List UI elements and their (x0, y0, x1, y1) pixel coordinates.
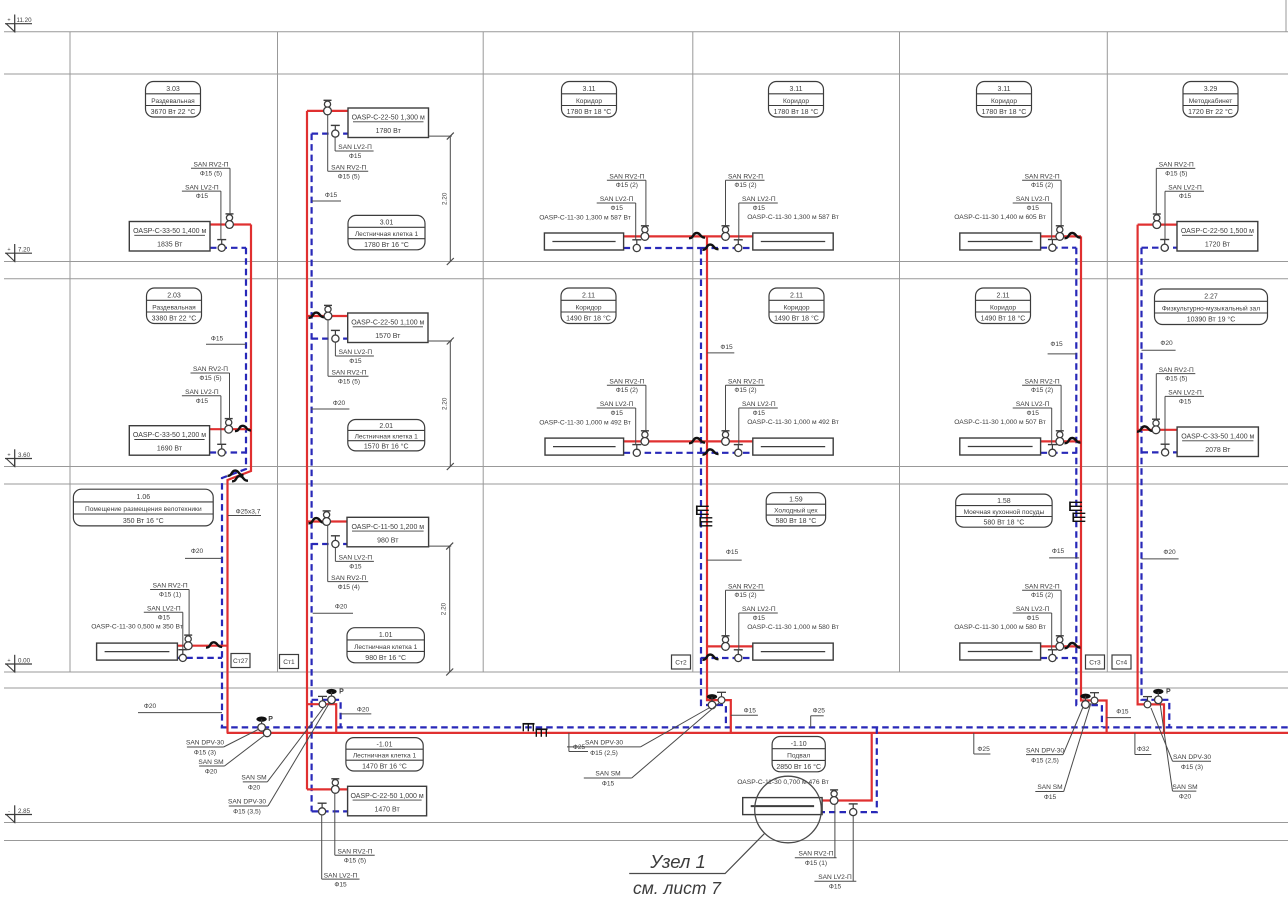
svg-text:SAN RV2-П: SAN RV2-П (728, 583, 763, 590)
svg-text:2.01: 2.01 (379, 423, 393, 430)
svg-text:Ф15 (2): Ф15 (2) (616, 387, 638, 394)
St1 DPV/SM leaders (228, 702, 330, 816)
room 1.01 (347, 628, 424, 663)
svg-text:2850 Вт 16 °С: 2850 Вт 16 °С (776, 763, 821, 771)
bay6 row2 return valve (1161, 444, 1170, 456)
svg-text:SAN RV2-П: SAN RV2-П (728, 378, 763, 385)
svg-text:Ф20: Ф20 (335, 603, 348, 610)
svg-text:SAN DPV-30: SAN DPV-30 (228, 799, 266, 806)
riser St4 supply (red) (1138, 225, 1164, 733)
elevation marker -2.85 (5, 805, 32, 822)
svg-text:ОАSР-С-11-30 1,000 м 507 Вт: ОАSР-С-11-30 1,000 м 507 Вт (954, 419, 1046, 426)
svg-text:Ст27: Ст27 (233, 658, 248, 665)
bay6 row1 SAN labels (1156, 162, 1204, 240)
St3 DPV/SM leaders (1026, 703, 1091, 801)
St1 phi20 main label (341, 706, 372, 714)
svg-text:ОАSР-С-11-30 1,400 м 605 Вт: ОАSР-С-11-30 1,400 м 605 Вт (954, 214, 1046, 221)
svg-text:1720 Вт 22 °С: 1720 Вт 22 °С (1188, 108, 1233, 116)
svg-text:Ф15: Ф15 (196, 193, 209, 200)
svg-text:2.11: 2.11 (790, 293, 803, 300)
svg-text:ОАSР-С-33-50 1,400 м: ОАSР-С-33-50 1,400 м (133, 228, 206, 235)
svg-text:Ф15 (2): Ф15 (2) (734, 387, 756, 394)
St3 phi15 label b (1049, 548, 1079, 558)
svg-text:SAN LV2-П: SAN LV2-П (600, 401, 634, 408)
riser tag St1 (280, 655, 299, 669)
bay2 row4 SAN labels (below) (322, 793, 375, 888)
bay4 row2 SAN labels (726, 378, 778, 444)
building grid vertical column lines (70, 0, 1286, 672)
St27 main valves P (256, 716, 273, 731)
bay2 row3 crossing (309, 518, 325, 523)
svg-text:1780 Вт 18 °С: 1780 Вт 18 °С (982, 108, 1027, 116)
riser St4 return (blue) (1142, 248, 1170, 728)
svg-text:Ф15: Ф15 (211, 336, 224, 343)
svg-text:Узел 1: Узел 1 (649, 851, 706, 872)
riser St1 supply (red) (306, 111, 308, 790)
svg-text:SAN RV2-П: SAN RV2-П (1025, 378, 1060, 385)
svg-text:Лестничная клетка 1: Лестничная клетка 1 (355, 231, 419, 238)
svg-text:ОАSР-С-33-50 1,200 м: ОАSР-С-33-50 1,200 м (133, 432, 206, 439)
svg-text:Ф15: Ф15 (726, 549, 739, 556)
svg-text:Ф15: Ф15 (1050, 341, 1063, 348)
return main (blue dashed) (221, 726, 1288, 728)
bay3 row1 radiator (624, 235, 707, 237)
svg-text:ОАSР-С-11-30 1,000 м 492 Вт: ОАSР-С-11-30 1,000 м 492 Вт (539, 420, 631, 427)
svg-text:11.20: 11.20 (16, 17, 32, 24)
svg-text:ОАSР-С-11-30 0,700 м 476 Вт: ОАSР-С-11-30 0,700 м 476 Вт (737, 779, 829, 786)
svg-text:Ф15 (3): Ф15 (3) (194, 749, 216, 756)
svg-text:580 Вт 18 °С: 580 Вт 18 °С (984, 519, 1025, 527)
St3 compensator marks (1070, 502, 1082, 512)
svg-text:Помещение размещения велотехни: Помещение размещения велотехники (85, 506, 202, 513)
svg-text:Коридор: Коридор (576, 98, 602, 105)
bay1 row1 return valve (217, 240, 226, 252)
svg-text:Р: Р (339, 688, 344, 695)
bay6 row1 return valve (1160, 240, 1169, 252)
svg-text:SAN RV2-П: SAN RV2-П (798, 850, 833, 857)
phi25 label left (569, 733, 588, 752)
svg-text:Холодный цех: Холодный цех (774, 507, 818, 515)
phi25 label right (974, 733, 991, 754)
svg-text:SAN LV2-П: SAN LV2-П (742, 196, 776, 203)
St3 main valves (1080, 694, 1090, 709)
svg-text:SAN DPV-30: SAN DPV-30 (186, 740, 224, 747)
svg-text:ОАSР-С-11-30 1,300 м 587 Вт: ОАSР-С-11-30 1,300 м 587 Вт (747, 214, 839, 221)
St27 phi20 main label (138, 703, 222, 712)
bay3 row1 SAN labels (597, 173, 646, 239)
svg-text:ОАSР-С-11-30 1,000 м 492 Вт: ОАSР-С-11-30 1,000 м 492 Вт (747, 419, 839, 426)
svg-text:1570 Вт 16 °С: 1570 Вт 16 °С (364, 442, 409, 450)
St3 phi15 label a (1048, 341, 1077, 354)
svg-text:SAN RV2-П: SAN RV2-П (609, 378, 644, 385)
St2 DPV/SM leaders (567, 703, 719, 787)
node detail circle (755, 776, 822, 843)
svg-text:Ст3: Ст3 (1089, 660, 1101, 667)
svg-text:Ф15: Ф15 (753, 410, 766, 417)
svg-text:Лестничная клетка 1: Лестничная клетка 1 (355, 433, 419, 440)
bay2 row2 radiator OASP-C-22-50 1,100 (307, 315, 348, 317)
St27 phi25x3.7 label (228, 508, 261, 515)
St27 phi15 label (206, 336, 246, 345)
svg-text:SAN RV2-П: SAN RV2-П (1159, 162, 1194, 169)
bay5 row2 supply valve (1056, 431, 1064, 446)
dimension 2.20 row3 (429, 543, 454, 676)
svg-text:SAN LV2-П: SAN LV2-П (1016, 401, 1050, 408)
svg-text:1490 Вт 18 °С: 1490 Вт 18 °С (981, 315, 1026, 323)
svg-text:Ф15: Ф15 (1044, 794, 1057, 801)
bay3 row1 return valve (632, 240, 641, 252)
svg-text:SAN LV2-П: SAN LV2-П (147, 606, 181, 613)
svg-text:Физкультурно-музыкальный зал: Физкультурно-музыкальный зал (1162, 304, 1260, 312)
svg-text:Ф25х3,7: Ф25х3,7 (236, 508, 261, 515)
svg-text:Ф25: Ф25 (813, 708, 826, 715)
bay3 row2 SAN labels (597, 378, 646, 444)
bay2 row4 return valve (318, 803, 327, 815)
svg-text:Ф32: Ф32 (1137, 746, 1150, 753)
basement radiator return drop (blue) (822, 727, 877, 812)
svg-text:ОАSР-С-33-50 1,400 м: ОАSР-С-33-50 1,400 м (1181, 434, 1254, 441)
bay1 row3 radiator OASP-C-11-30 0,500 (177, 645, 227, 647)
room 3.29 (1183, 82, 1238, 118)
svg-text:ОАSР-С-11-50 1,200 м: ОАSР-С-11-50 1,200 м (351, 524, 424, 531)
svg-text:Методкабинет: Методкабинет (1189, 97, 1233, 105)
svg-text:Ф15: Ф15 (1179, 193, 1192, 200)
room 3.03 (146, 82, 201, 118)
bay4 row2 supply valve (722, 431, 730, 446)
St27 phi20 label (185, 548, 222, 559)
svg-text:2.11: 2.11 (996, 293, 1009, 300)
svg-text:Ф15: Ф15 (1027, 205, 1040, 212)
dimension 2.20 row2 (428, 338, 454, 471)
elevation marker 3.60 (5, 449, 32, 466)
svg-text:Коридор: Коридор (783, 304, 809, 311)
svg-text:Ф15 (2): Ф15 (2) (1031, 387, 1053, 394)
svg-text:1780 Вт 16 °С: 1780 Вт 16 °С (364, 241, 409, 249)
bay5 row3 SAN labels (1013, 583, 1061, 649)
bay5 row2 radiator (1041, 440, 1081, 442)
svg-text:Лестничная клетка 1: Лестничная клетка 1 (353, 753, 417, 760)
room 2.03 (147, 288, 202, 324)
room 3.11 b (769, 82, 824, 118)
svg-text:ОАSР-С-22-50 1,500 м: ОАSР-С-22-50 1,500 м (1181, 228, 1254, 235)
room 2.11 b (769, 288, 824, 324)
St4 phi20 label a (1142, 340, 1176, 350)
riser St3 supply (red) (1081, 236, 1107, 733)
svg-text:+: + (7, 18, 10, 24)
svg-text:-1.10: -1.10 (791, 741, 807, 748)
svg-text:Ф15: Ф15 (349, 153, 362, 160)
svg-text:Ф15 (2,5): Ф15 (2,5) (1031, 757, 1059, 764)
bay5 row2 crossing (1065, 438, 1081, 443)
svg-text:SAN RV2-П: SAN RV2-П (193, 162, 228, 169)
svg-text:2.20: 2.20 (441, 602, 448, 615)
svg-text:SAN RV2-П: SAN RV2-П (153, 583, 188, 590)
bay2 row1 return valve (331, 125, 340, 137)
svg-text:Коридор: Коридор (990, 304, 1016, 311)
bay1 row2 crossing (235, 426, 251, 431)
bay2 row1 radiator OASP-C-22-50 1,300 (307, 110, 348, 112)
svg-text:Ф15: Ф15 (829, 884, 842, 891)
St1 phi20 label b (313, 603, 353, 613)
node leader (629, 833, 765, 874)
supply main (red) (227, 732, 1288, 734)
svg-text:Ф15 (2): Ф15 (2) (1031, 592, 1053, 599)
bay1 row3 crossing (206, 642, 222, 647)
room 1.58 (956, 494, 1052, 527)
riser St3 return (blue) (1076, 248, 1102, 728)
svg-text:Ф15: Ф15 (196, 398, 209, 405)
bay2 row2 SAN labels (328, 320, 374, 386)
svg-text:10390 Вт 19 °С: 10390 Вт 19 °С (1187, 316, 1236, 324)
bay2 row2 crossing (309, 313, 325, 318)
svg-text:Ф15: Ф15 (349, 564, 362, 571)
basement supply valve (830, 790, 838, 804)
svg-text:Ф15 (5): Ф15 (5) (1165, 170, 1187, 177)
svg-text:см. лист 7: см. лист 7 (633, 878, 722, 898)
svg-text:1780 Вт 18 °С: 1780 Вт 18 °С (774, 108, 819, 116)
svg-text:Ф15 (2): Ф15 (2) (1031, 182, 1053, 189)
svg-text:Ф15: Ф15 (158, 614, 171, 621)
svg-text:SAN LV2-П: SAN LV2-П (1168, 184, 1202, 191)
svg-text:SAN RV2-П: SAN RV2-П (728, 173, 763, 180)
bay4 row3 radiator (707, 645, 753, 647)
bay3 row2 crossing (689, 438, 705, 443)
svg-text:Ф15: Ф15 (611, 410, 624, 417)
svg-text:Ф15: Ф15 (1052, 548, 1065, 555)
svg-text:Ф20: Ф20 (357, 706, 370, 713)
svg-text:SAN SM: SAN SM (1037, 784, 1062, 791)
basement return valve (849, 804, 858, 816)
svg-text:2.20: 2.20 (441, 397, 448, 410)
svg-text:Р: Р (268, 716, 273, 723)
svg-text:Ф15 (2): Ф15 (2) (734, 592, 756, 599)
St2 phi15 label b (707, 549, 742, 560)
svg-text:7.20: 7.20 (18, 247, 31, 254)
bay3 row2 supply valve (641, 431, 649, 446)
St2 phi15 main label (731, 708, 758, 716)
svg-text:1690 Вт: 1690 Вт (157, 446, 183, 453)
svg-text:2.20: 2.20 (441, 192, 448, 205)
St2 main valves (707, 694, 717, 709)
St3 phi15 main label (1107, 709, 1131, 718)
room 3.11 a (562, 82, 617, 118)
bay4 row3 supply valve (722, 636, 730, 651)
svg-text:SAN RV2-П: SAN RV2-П (331, 164, 366, 171)
St1 phi20 label a (311, 400, 349, 409)
main compensator marks (523, 724, 535, 732)
elevation marker 0.00 (5, 655, 32, 672)
svg-text:Коридор: Коридор (783, 98, 809, 105)
svg-text:ОАSР-С-11-30 0,500 м 350 Вт: ОАSР-С-11-30 0,500 м 350 Вт (91, 624, 183, 631)
svg-text:2.85: 2.85 (18, 808, 31, 815)
svg-text:ОАSР-С-22-50 1,000 м: ОАSР-С-22-50 1,000 м (351, 793, 424, 800)
svg-text:1.59: 1.59 (789, 497, 803, 504)
bay5 row3 crossing (1065, 643, 1081, 648)
room 2.01 (348, 420, 425, 451)
room 3.01 (348, 215, 425, 249)
svg-text:Ф20: Ф20 (333, 400, 346, 407)
svg-text:ОАSР-С-22-50 1,100 м: ОАSР-С-22-50 1,100 м (351, 320, 424, 327)
St4 DPV/SM leaders (1151, 703, 1211, 801)
bay5 row2 SAN labels (1013, 378, 1061, 444)
bay1 row1 radiator OASP-C-33-50 1,400 (210, 223, 251, 225)
bay6 row2 SAN labels (1156, 367, 1204, 444)
svg-text:Моечная кухонной посуды: Моечная кухонной посуды (964, 508, 1045, 516)
svg-text:Коридор: Коридор (991, 98, 1017, 105)
svg-text:1470 Вт: 1470 Вт (375, 806, 401, 813)
bay6 row2 radiator OASP-C-33-50 1,400 (1138, 429, 1177, 431)
svg-text:Ф15 (5): Ф15 (5) (199, 375, 221, 382)
room -1.10 (772, 737, 825, 772)
bay3 row1 supply valve (641, 226, 649, 241)
svg-text:Ф20: Ф20 (191, 548, 204, 555)
bay2 row3 return valve (331, 536, 340, 548)
St2 phi15 label a (707, 344, 734, 353)
svg-text:SAN LV2-П: SAN LV2-П (742, 606, 776, 613)
svg-text:SAN RV2-П: SAN RV2-П (1159, 367, 1194, 374)
svg-text:SAN LV2-П: SAN LV2-П (339, 555, 373, 562)
svg-text:Ф15 (5): Ф15 (5) (200, 170, 222, 177)
bay5 row3 supply valve (1056, 636, 1064, 651)
svg-text:Ф15 (2): Ф15 (2) (616, 182, 638, 189)
svg-text:Ф15 (4): Ф15 (4) (338, 584, 360, 591)
svg-text:Ст4: Ст4 (1116, 660, 1128, 667)
bay6 row1 supply valve (1153, 214, 1161, 229)
svg-text:3.11: 3.11 (582, 86, 595, 93)
bay4 row1 crossing (703, 245, 719, 250)
svg-text:Ф15 (5): Ф15 (5) (1165, 376, 1187, 383)
svg-text:Ф15: Ф15 (349, 358, 362, 365)
svg-text:SAN RV2-П: SAN RV2-П (1025, 583, 1060, 590)
bay6 row1 radiator OASP-C-22-50 1,500 (1138, 224, 1177, 226)
svg-text:2.11: 2.11 (582, 293, 595, 300)
elevation marker 11.20 (5, 15, 32, 32)
svg-text:0.00: 0.00 (18, 657, 31, 664)
svg-text:3.11: 3.11 (789, 86, 802, 93)
svg-text:1570 Вт: 1570 Вт (375, 333, 401, 340)
svg-text:Ф15: Ф15 (1027, 615, 1040, 622)
svg-text:Ф15: Ф15 (720, 344, 733, 351)
bay2 row2 supply valve (324, 305, 332, 320)
room 2.27 (1155, 289, 1268, 325)
riser tag St27 (231, 654, 250, 668)
svg-text:3.01: 3.01 (380, 220, 394, 227)
svg-text:SAN RV2-П: SAN RV2-П (609, 173, 644, 180)
phi32 label (1135, 733, 1152, 755)
riser tag St3 (1086, 655, 1105, 669)
svg-text:Ф20: Ф20 (144, 703, 157, 710)
svg-text:SAN RV2-П: SAN RV2-П (193, 366, 228, 373)
svg-text:SAN SM: SAN SM (241, 775, 266, 782)
bay4 row3 crossing (703, 655, 719, 660)
bay4 row1 SAN labels (726, 173, 778, 239)
svg-text:Ф20: Ф20 (1160, 340, 1173, 347)
bay5 row1 radiator (1041, 235, 1081, 237)
svg-text:Ф15: Ф15 (611, 205, 624, 212)
svg-text:ОАSР-С-11-30 1,000 м 580 Вт: ОАSР-С-11-30 1,000 м 580 Вт (747, 624, 839, 631)
svg-text:SAN LV2-П: SAN LV2-П (338, 144, 372, 151)
bay4 row1 return valve (734, 240, 743, 252)
svg-text:SAN LV2-П: SAN LV2-П (600, 196, 634, 203)
svg-text:SAN DPV-30: SAN DPV-30 (1173, 754, 1211, 761)
svg-text:Ф15 (5): Ф15 (5) (338, 173, 360, 180)
svg-text:SAN RV2-П: SAN RV2-П (1025, 173, 1060, 180)
bay5 row1 return valve (1048, 240, 1057, 252)
basement SAN labels (795, 804, 857, 890)
St27 jog crossing marks (228, 471, 244, 476)
St1 main valves P (318, 696, 327, 707)
svg-text:SAN LV2-П: SAN LV2-П (339, 349, 373, 356)
svg-text:Раздевальная: Раздевальная (151, 98, 195, 105)
svg-text:SAN RV2-П: SAN RV2-П (331, 575, 366, 582)
bay1 row2 radiator OASP-C-33-50 1,200 (210, 428, 251, 430)
svg-text:SAN SM: SAN SM (595, 771, 620, 778)
svg-text:Ст2: Ст2 (675, 660, 687, 667)
bay5 row3 return valve (1048, 650, 1057, 662)
svg-text:Ф15 (3,5): Ф15 (3,5) (233, 809, 261, 816)
svg-text:SAN LV2-П: SAN LV2-П (1168, 390, 1202, 397)
svg-text:3.11: 3.11 (997, 86, 1010, 93)
room -1.01 (346, 738, 423, 771)
bay1 row3 SAN labels (144, 583, 189, 650)
riser tag St2 (672, 655, 691, 669)
bay6 row2 supply valve (1152, 419, 1160, 433)
bay1 row2 return valve (217, 444, 226, 456)
svg-text:350 Вт 16 °С: 350 Вт 16 °С (123, 517, 164, 525)
riser St2 supply (red) (707, 236, 731, 733)
svg-text:Ф15: Ф15 (1027, 410, 1040, 417)
bay4 row1 supply valve (722, 226, 730, 241)
svg-text:3.03: 3.03 (166, 86, 180, 93)
room 3.11 c (977, 82, 1032, 118)
bay1 row2 supply valve (225, 419, 233, 434)
room 2.11 c (976, 288, 1031, 324)
svg-text:1.58: 1.58 (997, 498, 1011, 505)
St4 phi20 label b (1142, 549, 1179, 559)
svg-text:1.01: 1.01 (379, 632, 393, 639)
svg-text:580 Вт 18 °С: 580 Вт 18 °С (776, 517, 817, 525)
bay3 row2 radiator (624, 440, 707, 442)
svg-text:Ф15: Ф15 (753, 615, 766, 622)
bay2 row4 supply valve (331, 779, 339, 794)
bay4 row2 crossing (703, 449, 719, 454)
St27 DPV/SM leaders (186, 729, 265, 776)
svg-text:Подвал: Подвал (787, 753, 810, 760)
svg-text:3.29: 3.29 (1204, 86, 1218, 93)
svg-text:SAN LV2-П: SAN LV2-П (185, 389, 219, 396)
elevation marker 7.20 (5, 244, 32, 262)
svg-text:Ф15: Ф15 (753, 205, 766, 212)
room 2.11 a (561, 288, 616, 324)
svg-text:SAN RV2-П: SAN RV2-П (331, 369, 366, 376)
St2 compensator marks (697, 506, 709, 516)
basement radiator supply drop (red) (822, 733, 872, 801)
svg-text:ОАSР-С-11-30 1,300 м 587 Вт: ОАSР-С-11-30 1,300 м 587 Вт (539, 215, 631, 222)
svg-text:Ф15: Ф15 (744, 708, 757, 715)
svg-text:SAN DPV-30: SAN DPV-30 (585, 740, 623, 747)
riser St2 return (blue) (701, 248, 726, 727)
svg-text:Ст1: Ст1 (283, 659, 295, 666)
svg-text:Ф15 (3): Ф15 (3) (1181, 764, 1203, 771)
St4 main valves P (1143, 697, 1152, 708)
bay2 row2 return valve (331, 330, 340, 342)
riser St27 supply (red) (228, 225, 252, 733)
svg-text:Ф15 (5): Ф15 (5) (344, 857, 366, 864)
bay4 row2 radiator (707, 440, 753, 442)
svg-text:Ф15 (5): Ф15 (5) (338, 378, 360, 385)
bay2 row4 radiator OASP-C-22-50 1,000 (307, 788, 348, 790)
riser St27 return (blue dashed) (222, 248, 246, 728)
